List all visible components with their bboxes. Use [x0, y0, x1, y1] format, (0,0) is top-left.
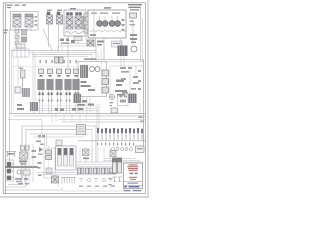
- corner valve A: [13, 14, 21, 27]
- lower box A outline: [44, 148, 55, 178]
- title red small line 2: [130, 179, 136, 180]
- wire right bus horizontal 1: [96, 59, 144, 61]
- left lower comp A: [15, 87, 21, 93]
- bottom T symbol 1: [79, 179, 83, 183]
- swing motor box: [78, 62, 107, 97]
- wire bottom bus 1: [76, 161, 144, 163]
- nested box line 1: [8, 126, 96, 185]
- title row 1 bar: [128, 183, 139, 185]
- pump pair P2: [109, 21, 120, 27]
- dark block below valve column 5: [74, 94, 82, 103]
- bottom T symbol 3: [109, 179, 113, 183]
- label under arrow comp: [38, 154, 43, 155]
- dotted wire bottom-center: [48, 146, 50, 172]
- wire left inner vertical bus: [10, 50, 12, 113]
- wire pump stems inside box: [100, 16, 118, 21]
- pilot valve PV1: [47, 12, 53, 24]
- title red small line 1: [129, 177, 137, 178]
- cylinder 2 cap: [64, 148, 68, 155]
- main control valve section 5: [73, 69, 80, 90]
- marks under pump box: [97, 41, 104, 46]
- wire nested drop right 2: [91, 129, 93, 162]
- main control valve section 3: [56, 69, 63, 90]
- dashed pilot line lower: [30, 105, 96, 107]
- wire mid bus step line 2: [58, 46, 96, 53]
- wire lower box verticals: [45, 134, 47, 147]
- border frame inner left line: [4, 3, 6, 194]
- label B1: [19, 68, 23, 69]
- wire right bus drop: [143, 60, 145, 148]
- wire left branch line: [8, 120, 42, 134]
- marks under valve comp: [83, 158, 89, 160]
- corner valve B: [25, 14, 33, 27]
- wire left vertical bus: [9, 29, 11, 169]
- right dark comp cluster: [129, 94, 137, 104]
- lower box A comp: [46, 168, 52, 174]
- wire bottom bus 2: [76, 163, 122, 165]
- accumulator cell 2: [7, 169, 11, 174]
- wire pre-title horizontal 1: [104, 158, 136, 160]
- title block outer box: [124, 163, 143, 189]
- title red text line 3: [128, 168, 138, 169]
- wire mid bus left hook: [33, 51, 35, 114]
- cylinder 3 cap: [70, 148, 74, 155]
- small box EC: [111, 108, 118, 113]
- wire mid bus step line 1: [62, 44, 88, 51]
- title red text line 1: [129, 164, 138, 165]
- pump box label marks: [91, 13, 120, 14]
- pump box P: [88, 10, 126, 38]
- label above swing box: [84, 58, 96, 59]
- right region box top: [110, 66, 144, 98]
- wire bottom bus 3: [76, 165, 122, 167]
- page bottom edge shading: [0, 196, 149, 198]
- lower box marks: [36, 141, 44, 145]
- wire drops comb to valve row: [80, 147, 110, 162]
- small box dashes: [137, 148, 143, 149]
- swing box sub comps: [81, 81, 96, 91]
- bottom valve column 2: [86, 168, 93, 174]
- cylinder 3 body: [70, 155, 74, 166]
- relief ladder left of pump box: [84, 13, 88, 33]
- swing box dotted line: [101, 63, 103, 95]
- pilot valve PV2: [57, 12, 63, 24]
- solenoid cylinders box: [56, 146, 77, 170]
- wire mid bus line 3: [32, 54, 92, 56]
- wire SV stem A: [67, 36, 69, 68]
- valve comp above bottom bus: [83, 149, 90, 156]
- wire mid bus drop 1: [95, 46, 97, 62]
- check valve pair bottom-center: [46, 150, 52, 160]
- wire pre-title horizontal 2: [104, 160, 140, 162]
- wire main bus line 3: [58, 118, 145, 120]
- small text box under pump box: [112, 41, 123, 47]
- right bus wire 1: [140, 6, 142, 62]
- lower box top line 2: [33, 136, 84, 138]
- arrow comp bottom-left-mid: [39, 147, 43, 152]
- solenoid valve block SV: [64, 10, 86, 36]
- wire mid bus line 4: [32, 55, 88, 57]
- footer marks under title: [124, 190, 142, 191]
- wire SV stem B: [77, 36, 79, 44]
- gauge circle right: [131, 46, 137, 52]
- left dark cluster above bus: [30, 102, 38, 111]
- wire swing drops: [80, 97, 90, 114]
- small rect lower mid: [56, 140, 62, 146]
- comp right of swing box: [104, 79, 109, 83]
- terminal comb heads: [97, 128, 143, 133]
- sensor circles row: [112, 148, 133, 151]
- pump box lower marks: [90, 34, 96, 36]
- pump unit circle: [17, 170, 21, 174]
- pump unit lower marks: [15, 178, 29, 185]
- swing motor circle 2: [95, 67, 100, 72]
- heavy supply line: [5, 166, 38, 168]
- title divider: [124, 181, 143, 183]
- title model text C m: [135, 173, 138, 175]
- title row 2 bar: [129, 186, 140, 188]
- comp pair above box A: [38, 135, 45, 138]
- comp left of comb: [77, 125, 86, 135]
- comb label marks: [97, 143, 134, 146]
- marks under top small comp: [130, 21, 136, 26]
- corner note text row: [7, 5, 27, 9]
- pump unit top rects: [21, 146, 30, 150]
- wire left stack stems: [17, 33, 25, 58]
- tank symbol: [6, 152, 16, 158]
- wire right mid verticals: [121, 56, 136, 96]
- wire main bus line 1: [10, 112, 145, 114]
- side marks right of pump unit: [32, 150, 37, 158]
- wire mid bus line 1: [11, 50, 96, 52]
- comp B1 with stem: [21, 70, 26, 87]
- corner legend box: [11, 12, 39, 31]
- valve stem end marks upper: [39, 93, 80, 96]
- T symbol under cylinder A: [113, 177, 118, 182]
- right valve stack rect 1: [102, 70, 109, 76]
- label above pilot valve PV1: [47, 10, 52, 11]
- right bus wire 2: [141, 18, 143, 62]
- wire PV2 stem: [58, 24, 60, 50]
- tank label: [8, 153, 14, 155]
- wire sub bus line a: [36, 107, 97, 109]
- page background: [0, 0, 149, 198]
- wire corner box stems: [15, 27, 31, 31]
- right small text box dashes: [120, 96, 128, 103]
- cylinder 1 body: [58, 155, 62, 166]
- main control valve section 1: [38, 69, 45, 90]
- arrow comp lower marks: [38, 162, 42, 169]
- pump pair P1: [97, 21, 108, 27]
- pump unit marks: [19, 161, 27, 165]
- marks right lower: [139, 117, 144, 122]
- small text box dash: [113, 43, 120, 44]
- wire right bus horizontal 2: [96, 61, 144, 63]
- bottom valve column 4: [102, 168, 109, 174]
- corner box side marks: [35, 16, 38, 26]
- wire valve comp stem: [85, 159, 87, 162]
- bottom labels row: [79, 186, 115, 187]
- dashed pilot line upper: [13, 66, 78, 68]
- left valve stack lower body: [16, 44, 25, 48]
- comps below swing box: [77, 100, 95, 110]
- note text top-right: [128, 4, 142, 10]
- right small text box: [118, 94, 129, 106]
- bottom valve column 5: [110, 168, 117, 174]
- bottom small cluster: [52, 176, 59, 183]
- comp X pair under pump box: [87, 40, 94, 46]
- left lower hatched comp: [22, 88, 30, 97]
- wire sub bus line b: [36, 110, 99, 112]
- wire diagonal from badge: [43, 29, 52, 50]
- right small comp: [130, 34, 137, 43]
- small box right of circles: [136, 146, 145, 153]
- wire valve stems down: [40, 90, 79, 113]
- wire bundle corner to swing: [98, 47, 104, 59]
- bottom circle symbol 2: [103, 179, 106, 182]
- title row 2 left mark: [124, 186, 126, 188]
- marks under circled cross: [110, 102, 114, 106]
- pump unit valve with X: [20, 152, 28, 159]
- step connector stubs: [58, 185, 62, 191]
- wire pump stem 1: [95, 38, 97, 47]
- bottom comb baseline: [61, 177, 76, 179]
- wire main bus line 4: [62, 121, 145, 123]
- left valve stack column 1: [15, 30, 19, 45]
- accumulator cell 1: [7, 162, 11, 167]
- wire pump stem 2: [103, 38, 105, 60]
- main control valve section 2: [47, 69, 54, 90]
- top small comp right: [130, 13, 137, 18]
- left mid box: [13, 49, 29, 57]
- pilot comps under bus: [55, 108, 76, 111]
- accumulator cylinder A: [113, 158, 117, 173]
- right valve stack rect 3: [102, 87, 109, 93]
- swing motor circle 1: [90, 67, 95, 72]
- comp X right of valve row: [110, 151, 116, 157]
- accumulator column box: [6, 160, 14, 181]
- page right edge shading: [147, 0, 149, 198]
- title model text 851: [130, 173, 134, 175]
- cylinder 1 cap: [58, 148, 62, 155]
- main control valve section 4: [65, 69, 72, 90]
- nested box line 2: [5, 129, 92, 187]
- bus connector stubs: [52, 113, 86, 122]
- bottom T symbol 2: [94, 179, 98, 183]
- pump box zigzag line: [90, 30, 126, 32]
- circled cross comp: [109, 94, 115, 100]
- comp under solenoid block: [74, 37, 82, 41]
- lower box top line 1: [30, 133, 88, 135]
- accumulator cell 3: [7, 176, 11, 180]
- pump unit lower rects: [23, 170, 30, 175]
- column ticks above valve row: [40, 60, 77, 63]
- right valve stack rect 2: [102, 79, 109, 85]
- wire pump box right stem: [120, 38, 122, 46]
- nested box line 3: [3, 189, 62, 191]
- bottom comb ticks: [62, 178, 75, 184]
- wire nested drop right 1: [95, 126, 97, 162]
- label 2B above pump box: [104, 7, 111, 8]
- left mid marks row: [17, 104, 24, 110]
- pump box right marks: [122, 19, 125, 31]
- right mid extra comps: [120, 67, 141, 94]
- wire footer link: [62, 190, 122, 192]
- pilot manifold comp: [55, 57, 64, 63]
- wire bottom horizontals: [36, 173, 78, 175]
- right dark solenoid cluster: [118, 46, 128, 57]
- accumulator labels: [12, 164, 14, 179]
- right mid cluster: [115, 80, 127, 96]
- title red text line 2: [128, 166, 139, 167]
- wire vertical pair mid: [97, 104, 99, 128]
- wire mid bus line 2: [29, 52, 96, 54]
- wire PV1 stem: [48, 24, 50, 47]
- wire comp A stem: [17, 58, 19, 87]
- wire right vertical x140: [139, 103, 141, 116]
- bottom valve column 3: [94, 168, 101, 174]
- wire main bus line 2: [13, 115, 145, 117]
- accumulator cylinder B: [118, 158, 122, 173]
- wire from top small comp: [132, 18, 134, 44]
- border frame outer: [3, 3, 145, 194]
- label above solenoid block: [70, 8, 76, 9]
- cylinder 2 body: [64, 155, 68, 166]
- dotted line left box: [12, 58, 14, 112]
- pump box divider: [93, 10, 95, 38]
- bottom circle symbol 1: [88, 179, 91, 182]
- marks left of title block: [109, 172, 112, 185]
- label above pilot valve PV2: [57, 10, 62, 11]
- cluster above mid bus: [60, 39, 75, 45]
- title row divider: [124, 184, 143, 186]
- wire bottom-left verticals: [21, 144, 33, 184]
- note marks under badge: [4, 30, 8, 34]
- wire ladder spine: [85, 13, 87, 40]
- label 4 bottom: [38, 175, 42, 176]
- title red text line 4: [129, 170, 138, 171]
- T symbol under cylinder B: [118, 177, 123, 182]
- bottom valve column 1: [78, 168, 85, 174]
- left valve stack column 2: [22, 30, 27, 43]
- wire mid bus drop 2: [91, 55, 93, 62]
- terminal comb row: [98, 128, 142, 140]
- wire comb baseline: [78, 140, 145, 142]
- valve stem end marks lower: [39, 100, 79, 102]
- swing motor hatched block: [80, 65, 88, 78]
